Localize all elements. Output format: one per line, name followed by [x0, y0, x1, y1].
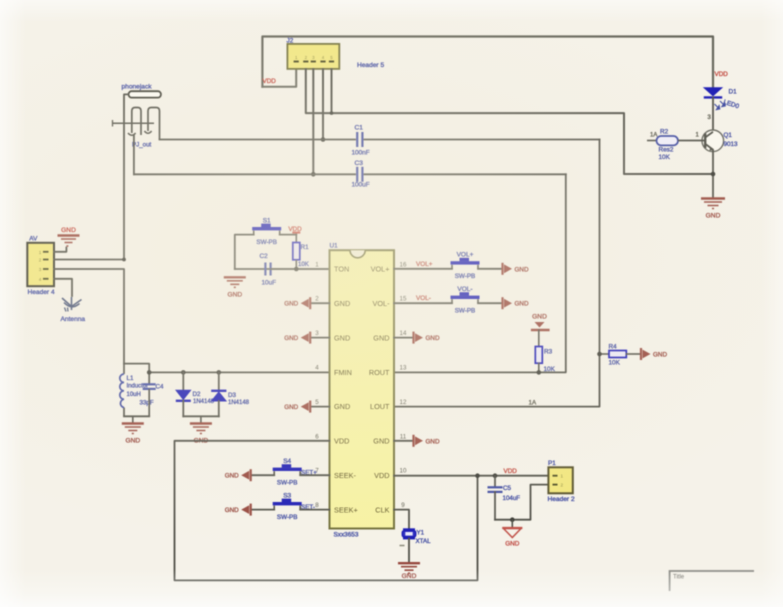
wire C5 bottom to P1 pin2 — [495, 485, 548, 520]
wire FMIN net pin4 — [149, 371, 329, 373]
wire VDD pin10 to P1 — [394, 475, 548, 477]
junction tank branch — [147, 370, 152, 375]
svg-text:GND: GND — [426, 335, 440, 342]
svg-text:C4: C4 — [156, 384, 164, 391]
svg-text:VOL+: VOL+ — [416, 261, 433, 268]
svg-text:VDD: VDD — [504, 468, 518, 475]
junction pin4/C1 net — [321, 137, 326, 142]
svg-text:R3: R3 — [544, 349, 553, 356]
ground S4 — [250, 469, 252, 481]
svg-text:VOL+: VOL+ — [371, 265, 390, 274]
junction R4/LOUT net — [597, 352, 602, 357]
connector J2 Header 5 — [287, 44, 339, 69]
svg-text:10K: 10K — [298, 261, 309, 268]
diode D2 1N4148 — [182, 372, 184, 390]
svg-text:U1: U1 — [330, 243, 339, 250]
svg-text:4: 4 — [315, 365, 319, 372]
svg-text:GND: GND — [532, 314, 547, 321]
capacitor C2 10uF — [264, 263, 266, 276]
svg-text:Q1: Q1 — [724, 132, 733, 139]
svg-text:P1: P1 — [548, 460, 556, 467]
svg-text:1A: 1A — [529, 400, 537, 407]
wire CLK to crystal — [394, 510, 409, 529]
connector P1 Header 2 — [548, 467, 572, 493]
svg-text:S4: S4 — [283, 458, 291, 465]
svg-text:104uF: 104uF — [503, 495, 521, 502]
svg-text:Header 4: Header 4 — [28, 289, 55, 296]
svg-text:VDD: VDD — [263, 78, 277, 85]
svg-text:PJ_out: PJ_out — [132, 142, 152, 149]
title block corner — [670, 571, 754, 591]
wire LED to collector — [712, 97, 714, 131]
svg-text:GND: GND — [373, 333, 389, 342]
antenna ANT — [62, 297, 82, 312]
wire phonejack contact to C3 wire — [133, 135, 135, 174]
svg-text:FMIN: FMIN — [334, 368, 352, 377]
power port VDD at R1 — [295, 233, 297, 235]
wire header J2 pin1 to VDD loop — [262, 69, 296, 87]
svg-text:R4: R4 — [609, 344, 618, 351]
wire tank top — [124, 364, 149, 385]
svg-text:R2: R2 — [660, 129, 669, 136]
svg-text:VOL-: VOL- — [372, 299, 390, 308]
svg-text:2: 2 — [561, 482, 564, 487]
wire ROUT net through C3 — [134, 173, 355, 175]
ground pin 2 — [311, 302, 329, 304]
ground VOL- — [501, 297, 503, 309]
svg-text:10K: 10K — [609, 360, 621, 367]
svg-text:2: 2 — [39, 258, 42, 263]
resistor R4 10K — [600, 353, 610, 355]
svg-text:Header 2: Header 2 — [548, 496, 575, 503]
connector PJ phonejack — [113, 84, 161, 149]
svg-text:C2: C2 — [260, 253, 269, 260]
wire header J2 pin4 down to C1 net — [322, 69, 324, 140]
push-button VOL- SW-PB — [394, 302, 452, 304]
svg-text:CLK: CLK — [375, 505, 389, 514]
wire AV pin2 to phonejack net — [54, 259, 124, 261]
capacitor C3 100uF — [356, 167, 358, 182]
junction D3 branch — [217, 370, 222, 375]
resistor R2 Res2 10K — [647, 140, 657, 142]
ground AV pin1 — [58, 236, 80, 247]
wire VDD top rail — [262, 37, 713, 87]
svg-text:10K: 10K — [544, 366, 556, 373]
junction R3/ROUT — [537, 370, 542, 375]
junction pin5/rail — [330, 111, 334, 115]
svg-text:SEEK+: SEEK+ — [334, 505, 358, 514]
wire TON net to IC pin 1 — [235, 268, 355, 270]
svg-text:10: 10 — [400, 468, 407, 475]
svg-text:SW-PB: SW-PB — [256, 239, 277, 246]
svg-text:Header 5: Header 5 — [357, 62, 384, 69]
svg-text:GND: GND — [334, 333, 350, 342]
svg-text:R1: R1 — [301, 244, 310, 251]
svg-text:VDD: VDD — [374, 471, 389, 480]
svg-text:3: 3 — [315, 330, 319, 337]
svg-text:1N4148: 1N4148 — [228, 400, 250, 406]
ground pin 11 — [394, 440, 413, 442]
svg-text:GND: GND — [373, 437, 389, 446]
wire AV pin1 to GND — [54, 248, 66, 252]
svg-text:16: 16 — [400, 261, 407, 268]
svg-text:GND: GND — [334, 299, 350, 308]
svg-text:SW-PB: SW-PB — [277, 479, 298, 486]
wire AV pin4 to antenna — [54, 279, 72, 296]
svg-text:GND: GND — [284, 335, 298, 342]
ground C5/P1 — [511, 520, 513, 527]
wire ROUT vertical right — [394, 174, 566, 372]
junction D2 branch — [181, 370, 186, 375]
svg-text:GND: GND — [225, 473, 239, 480]
svg-text:GND: GND — [61, 227, 76, 234]
ground VOL+ — [501, 263, 503, 275]
wire C2 to pin1 — [271, 268, 330, 270]
junction pin3/C3 net — [311, 172, 316, 177]
resistor R3 10K — [538, 330, 540, 347]
connector AV Header 4 — [27, 243, 54, 286]
crystal Y1 XTAL — [403, 528, 415, 530]
svg-text:C3: C3 — [355, 160, 364, 167]
IC U1 Sxx3653 — [330, 250, 395, 528]
svg-text:VDD: VDD — [334, 437, 349, 446]
ground pin 14 — [394, 337, 413, 339]
svg-text:GND: GND — [225, 507, 239, 514]
svg-text:2: 2 — [315, 296, 319, 303]
svg-text:GND: GND — [653, 352, 667, 359]
svg-text:15: 15 — [400, 296, 407, 303]
svg-text:LED0: LED0 — [722, 99, 740, 111]
wire LOUT vertical right — [394, 140, 600, 407]
svg-text:SEEK-: SEEK- — [334, 471, 356, 480]
svg-text:12: 12 — [400, 399, 407, 406]
capacitor C1 100nF — [356, 132, 358, 147]
svg-text:Sxx3653: Sxx3653 — [334, 532, 359, 539]
svg-text:Title: Title — [673, 575, 685, 581]
svg-text:1: 1 — [561, 474, 564, 479]
svg-text:VOL-: VOL- — [416, 295, 431, 302]
svg-text:SW-PB: SW-PB — [277, 514, 298, 521]
push-button S4 SW-PB (SET+) — [252, 474, 275, 476]
ground tank — [132, 416, 134, 423]
junction R1 bottom — [294, 267, 299, 272]
svg-text:10uH: 10uH — [127, 392, 141, 398]
resistor R1 10K — [295, 235, 297, 243]
svg-text:VDD: VDD — [288, 226, 302, 233]
svg-text:13: 13 — [400, 365, 407, 372]
junction C5 branch — [493, 473, 498, 478]
svg-text:LOUT: LOUT — [370, 402, 390, 411]
svg-text:D1: D1 — [729, 89, 738, 96]
svg-text:14: 14 — [400, 330, 407, 337]
svg-text:4: 4 — [39, 277, 42, 282]
ground diodes — [200, 416, 202, 423]
svg-text:9: 9 — [401, 502, 405, 509]
junction AV pin2 — [122, 258, 126, 262]
LED D1 — [703, 87, 723, 96]
wire tank bottom — [124, 415, 149, 417]
diode D3 1N4148 — [218, 372, 220, 391]
wire VDD to LED — [712, 78, 714, 87]
wire crystal to ground — [400, 545, 405, 547]
ground Q1 — [701, 199, 725, 209]
capacitor C4 33pF — [143, 383, 156, 385]
svg-text:VOL-: VOL- — [457, 286, 472, 293]
wire S1 left to GND corner — [235, 235, 254, 269]
svg-text:phonejack: phonejack — [122, 84, 153, 91]
junction emitter rail — [711, 172, 716, 177]
svg-text:GND: GND — [515, 301, 529, 308]
svg-text:10uF: 10uF — [262, 280, 277, 287]
svg-text:8: 8 — [315, 502, 319, 509]
inductor L1 10uH — [123, 364, 125, 417]
svg-text:Antenna: Antenna — [61, 316, 86, 323]
junction bottom-rail riser — [475, 473, 480, 478]
svg-text:GND: GND — [426, 438, 440, 445]
svg-text:S3: S3 — [283, 492, 291, 499]
svg-text:XTAL: XTAL — [416, 538, 432, 545]
svg-text:J2: J2 — [287, 37, 294, 44]
wire phonejack sleeve to AV pin2 vertical — [124, 94, 129, 259]
capacitor C5 104uF — [494, 476, 496, 487]
wire VDD pin6 loop — [175, 441, 478, 581]
svg-text:GND: GND — [515, 266, 529, 273]
svg-text:TON: TON — [334, 265, 349, 274]
ground crystal — [398, 563, 420, 573]
svg-text:L1: L1 — [127, 375, 134, 382]
svg-text:9013: 9013 — [724, 141, 739, 148]
svg-text:33pF: 33pF — [140, 400, 154, 407]
svg-text:6: 6 — [315, 433, 319, 440]
svg-text:D3: D3 — [228, 392, 236, 399]
svg-text:100nF: 100nF — [352, 150, 370, 157]
ground pin 3 — [311, 337, 329, 339]
wire S1 right to R1 top node — [280, 234, 297, 236]
svg-text:3: 3 — [708, 115, 712, 121]
push-button VOL+ SW-PB — [394, 268, 452, 270]
svg-text:100uF: 100uF — [352, 182, 370, 189]
svg-text:S1: S1 — [263, 217, 271, 224]
svg-text:1N4148: 1N4148 — [193, 399, 215, 405]
svg-text:Y1: Y1 — [417, 530, 425, 537]
svg-text:ROUT: ROUT — [369, 368, 390, 377]
svg-text:GND: GND — [334, 402, 350, 411]
svg-text:SW-PB: SW-PB — [455, 273, 476, 280]
svg-text:AV: AV — [29, 236, 38, 243]
svg-text:GND: GND — [284, 404, 298, 411]
wire AV pin3 to tank net — [54, 269, 124, 364]
svg-text:11: 11 — [400, 433, 407, 440]
svg-text:C1: C1 — [355, 125, 364, 132]
transistor Q1 9013 — [702, 130, 724, 152]
svg-text:10K: 10K — [659, 154, 671, 161]
ground S1 — [224, 277, 246, 287]
ground S3 — [250, 504, 252, 516]
svg-text:1A: 1A — [650, 133, 657, 139]
ground pin 5 — [311, 406, 329, 408]
wire emitter to ground — [712, 150, 714, 198]
svg-text:D2: D2 — [193, 391, 201, 398]
wire header J2 pin3 down to C3 net — [312, 69, 314, 174]
wire LOUT net through C1 — [160, 139, 356, 141]
svg-text:VOL+: VOL+ — [457, 252, 474, 259]
svg-text:C5: C5 — [503, 485, 511, 492]
ground R4 — [640, 348, 642, 360]
wire header J2 pin2 to emitter rail — [306, 69, 712, 174]
svg-text:GND: GND — [125, 438, 140, 445]
svg-text:Res2: Res2 — [659, 147, 674, 154]
svg-text:GND: GND — [227, 291, 242, 298]
svg-text:1: 1 — [315, 261, 319, 268]
svg-text:GND: GND — [505, 541, 520, 548]
junction GND stem — [510, 517, 515, 522]
svg-text:5: 5 — [315, 399, 319, 406]
svg-text:GND: GND — [284, 301, 298, 308]
svg-text:VDD: VDD — [715, 71, 729, 78]
push-button S3 SW-PB (SET-) — [252, 509, 275, 511]
svg-text:1: 1 — [696, 133, 700, 139]
svg-text:3: 3 — [39, 267, 42, 272]
svg-text:GND: GND — [706, 213, 721, 220]
wire header J2 pin5 to pin2 rail — [331, 69, 333, 113]
svg-text:1: 1 — [39, 250, 42, 255]
svg-text:GND: GND — [402, 573, 417, 580]
wire diode bottom — [183, 415, 219, 417]
push-button S1 SW-PB — [253, 231, 255, 235]
svg-text:SW-PB: SW-PB — [455, 307, 476, 314]
